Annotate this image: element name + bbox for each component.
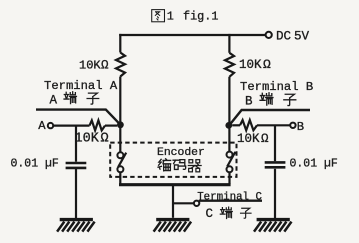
svg-text:DC: DC	[276, 30, 292, 44]
svg-text:Terminal B: Terminal B	[240, 80, 313, 94]
svg-text:1: 1	[167, 10, 174, 24]
svg-text:Ω: Ω	[261, 132, 269, 146]
svg-text:Ω: Ω	[263, 57, 271, 72]
svg-text:A: A	[50, 94, 58, 108]
svg-text:0.01 µF: 0.01 µF	[11, 157, 59, 170]
svg-text:C: C	[206, 207, 214, 221]
svg-text:B: B	[245, 95, 253, 109]
svg-text:10K: 10K	[75, 131, 100, 146]
svg-text:10K: 10K	[237, 132, 260, 146]
svg-text:10K: 10K	[79, 58, 101, 72]
svg-text:5V: 5V	[294, 30, 310, 44]
svg-text:Terminal A: Terminal A	[44, 79, 118, 93]
svg-text:A: A	[38, 119, 46, 133]
svg-text:B: B	[297, 120, 304, 134]
svg-text:0.01 µF: 0.01 µF	[290, 157, 338, 170]
svg-text:Ω: Ω	[101, 59, 109, 73]
svg-text:Ω: Ω	[101, 132, 109, 147]
svg-text:Terminal C: Terminal C	[197, 191, 262, 203]
svg-text:fig.1: fig.1	[183, 10, 218, 24]
svg-text:Encoder: Encoder	[157, 147, 205, 159]
svg-text:10K: 10K	[239, 58, 262, 72]
